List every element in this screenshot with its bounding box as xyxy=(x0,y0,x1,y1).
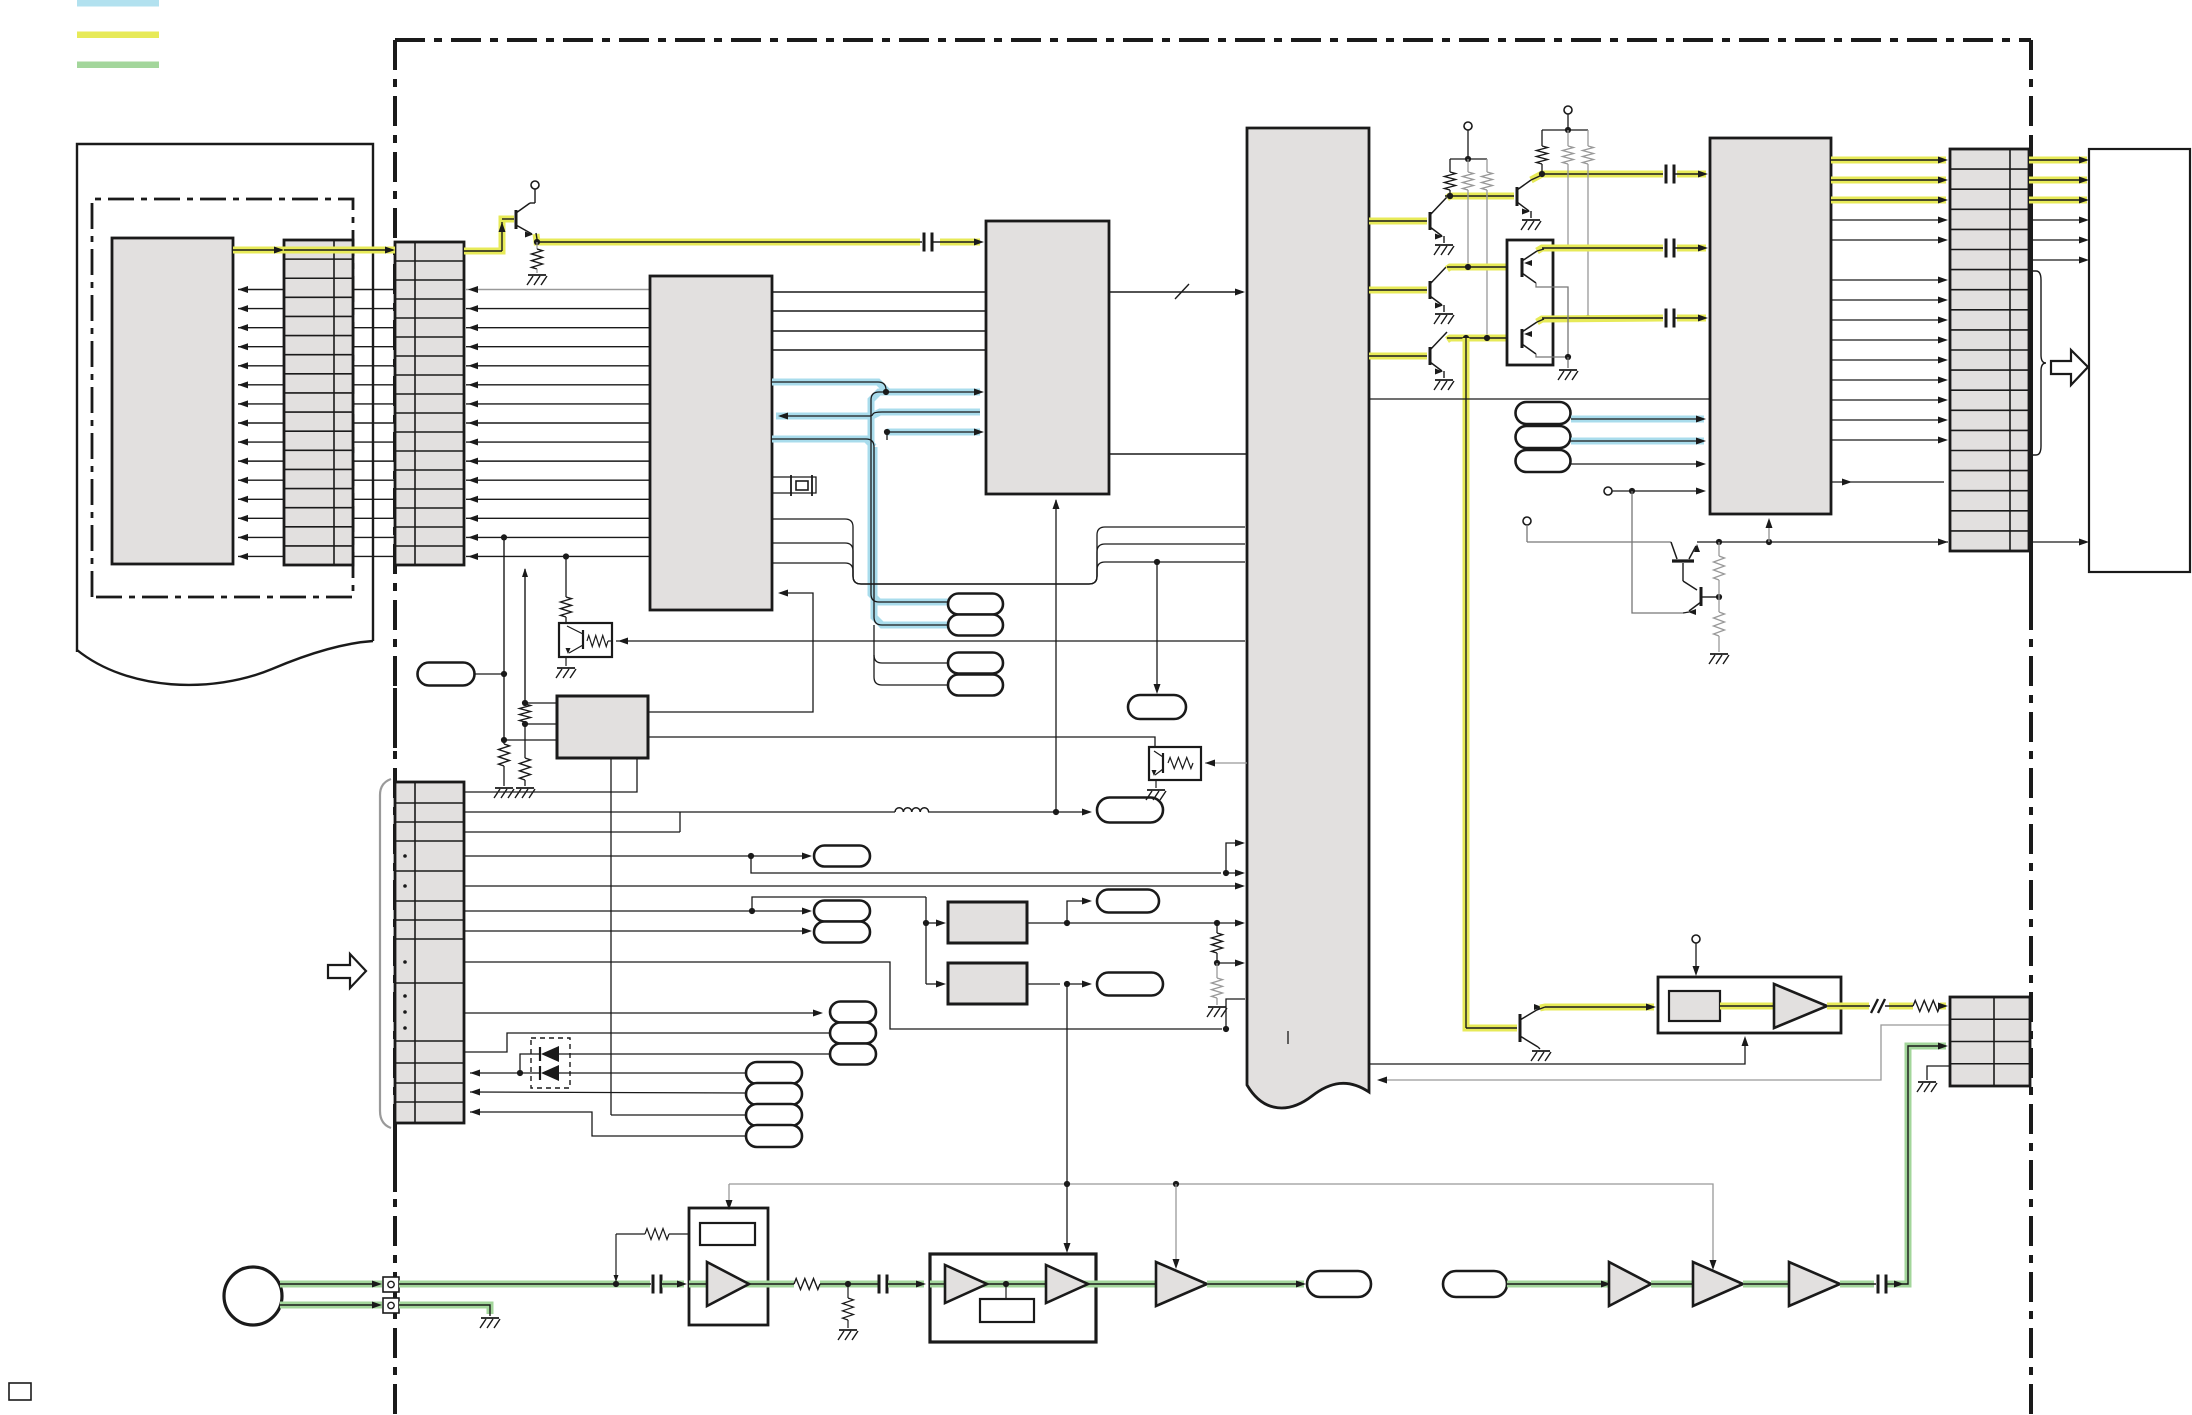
ground below PC2 xyxy=(1155,780,1157,788)
wire J5 bottom row to right block xyxy=(2029,541,2085,543)
IC U1 (LCD/display block) xyxy=(112,238,233,564)
test point oval TP-A5 xyxy=(830,1023,876,1044)
wire box B output down to audio mute line xyxy=(1066,984,1068,1184)
main board dash-dot border right xyxy=(2029,40,2033,1415)
wire cyan trunk node to IC U3 pin1 and test point oval xyxy=(871,392,980,602)
resistor R13 xyxy=(1541,130,1543,146)
gray control line to AMP1 and AMP3 tops xyxy=(729,1184,1713,1268)
wire J3 row10 stepped to oval TP-A5 xyxy=(464,1033,830,1052)
wire J3 row11 to oval TP-B1 via D2 xyxy=(470,1072,540,1074)
wire IC U10 to PC2 xyxy=(1205,762,1247,764)
green wire T6 to capacitor C7 up to J4 xyxy=(1840,1281,1874,1288)
wire D1 anode to oval TP-A6 xyxy=(559,1053,830,1055)
test point oval TP-A4 xyxy=(830,1002,876,1023)
IC U2 (key/system controller) xyxy=(650,276,772,610)
wire IC U5 bottom to oval TP-B3 line xyxy=(610,758,612,1115)
resistor R4 to ground xyxy=(499,744,510,766)
wire arrow up into J2 bottom, down to resistor R2 xyxy=(524,569,526,702)
green wire through AMP1 xyxy=(689,1281,768,1288)
yellow highlighted net - wire IC U1 to J1 to J2 to Q1 xyxy=(233,247,395,254)
bus wire IC U3 to IC U10 with width slash xyxy=(1109,291,1243,293)
test point oval TP-B4 xyxy=(948,675,1003,696)
wire AMP-B top arrow xyxy=(1066,1184,1068,1250)
transistor Q8 (pass) xyxy=(1671,542,1677,559)
connector J1 (flex to display) xyxy=(284,240,353,565)
wire vertical V1 inductor line to IC U3 bottom xyxy=(1055,500,1057,812)
wire long line to comparator boxes xyxy=(925,897,927,984)
amp triangle B2 xyxy=(1046,1265,1088,1303)
yellow wire Q6a collector row2 to capacitor C3 to IC U4 xyxy=(1537,248,1663,251)
legend yellow wire sample xyxy=(77,32,159,39)
test point oval TP-C1 xyxy=(948,594,1003,615)
resistor R15 xyxy=(1587,130,1589,146)
wire IC U10 to AMP2 bottom xyxy=(1369,1040,1745,1064)
ground below Q7 xyxy=(1532,1050,1550,1052)
cyan highlighted net - wires IC U2 to IC U3 (remote bus) xyxy=(772,382,886,392)
main board dash-dot border top xyxy=(395,38,2031,42)
amp triangle inside AMP1 xyxy=(707,1262,749,1306)
resistor R12 xyxy=(1486,159,1488,172)
wire J3 row13 stepped to oval TP-B4 xyxy=(470,1112,746,1136)
legend green wire sample xyxy=(77,62,159,69)
wire IC U4 to J5 with near arrow xyxy=(1831,481,1944,483)
resistor R5 above photocoupler PC1 xyxy=(565,557,567,598)
ground below R4 xyxy=(495,787,513,789)
wire J3 row12 to oval TP-B2 xyxy=(470,1092,746,1093)
gray wire J4 row2 to IC U10 xyxy=(1379,1025,1950,1080)
green wire pad2 to ground xyxy=(399,1305,490,1314)
transistor Q1 xyxy=(515,210,518,229)
test point oval TP-B3b xyxy=(746,1104,802,1126)
amp triangle B1 xyxy=(945,1265,987,1303)
feedback resistor R19 into AMP1 xyxy=(615,1234,617,1281)
gray branch to amp T3 xyxy=(1175,1184,1177,1266)
wire T3 node down to Q8 emitter xyxy=(1632,491,1683,613)
wires J1 rows to IC U1 (bus) xyxy=(238,286,284,560)
capacitor C4 xyxy=(1665,309,1668,328)
green wire TP-S2 to amp T4 xyxy=(1507,1281,1609,1288)
IC U5 (reset/regulator) xyxy=(557,696,648,758)
page corner box xyxy=(9,1383,31,1400)
wire J3 row5 to IC U10 xyxy=(464,885,1243,887)
capacitor C7 xyxy=(1877,1275,1880,1294)
big hollow arrow into J3 xyxy=(328,954,366,988)
wire J3 row1 to IC U5 bottom xyxy=(464,758,637,792)
yellow node wire Q4 collector into dual transistor Q6b base xyxy=(1447,338,1519,340)
audio block AMP-B xyxy=(930,1254,1096,1342)
transistor Q7 (audio mute) xyxy=(1519,1014,1522,1042)
attenuator block inside AMP1 xyxy=(700,1223,755,1245)
test point oval TP-A6 xyxy=(830,1044,876,1065)
amp triangle T4 xyxy=(1609,1262,1651,1306)
test point oval TP-B4b xyxy=(746,1125,802,1147)
cyan wires ovals to IC U4 xyxy=(1571,416,1704,423)
IC U10 (main microprocessor, torn bottom) xyxy=(1247,128,1369,1108)
transistor Q3 xyxy=(1429,281,1432,299)
terminal T3 to IC U4 xyxy=(1604,487,1612,495)
transistor Q5 with ground xyxy=(1516,187,1519,206)
wire IC U5 to photocoupler PC2 xyxy=(648,737,1155,746)
yellow node wire Q3 collector into dual transistor Q6a base xyxy=(1447,267,1519,269)
pin marker dots in J3 xyxy=(403,854,407,858)
feedthrough pad P1 xyxy=(383,1277,399,1292)
wires IC U4 to J5 (signal bus) xyxy=(1831,217,1948,444)
yellow wire IC U10 to Q2 base xyxy=(1369,218,1427,225)
big hollow arrow to right block xyxy=(2051,350,2088,385)
transistor Q2 xyxy=(1429,212,1432,230)
wires J1 to J2 (board boundary bus) xyxy=(353,290,395,557)
left assembly outer box (torn-edge) xyxy=(77,144,373,652)
resistor R11 xyxy=(1467,159,1469,172)
capacitor C5 xyxy=(652,1275,655,1294)
test point oval TP-A1 xyxy=(814,846,870,867)
wire box B output to oval TP-K2 xyxy=(1027,983,1060,985)
IC U3 (servo/driver) xyxy=(986,221,1109,494)
resistor R18 xyxy=(1913,1001,1940,1012)
wire J3 row4 to oval TP-A1 and IC U10 xyxy=(464,855,751,857)
amp triangle T5 xyxy=(1693,1262,1743,1306)
ground at mic return xyxy=(481,1317,499,1319)
wire J3 row6 to oval TP-A2 with stub xyxy=(464,910,752,912)
capacitor C6 xyxy=(878,1275,881,1294)
left assembly inner dash-dot box xyxy=(92,199,353,597)
resistor R21 to ground xyxy=(847,1284,849,1298)
terminal T4 supply xyxy=(1523,517,1531,525)
ground below R3 xyxy=(516,787,534,789)
amp triangle inside AMP2 xyxy=(1774,984,1827,1028)
test point oval TP-B2 xyxy=(746,1083,802,1105)
wire to oval TP-B3 xyxy=(611,1114,746,1116)
yellow wire Q1 emitter to capacitor C1 to IC U3 xyxy=(536,234,920,242)
yellow wire through AMP2 xyxy=(1720,1003,1774,1010)
wire IC U5 pin3 to tap xyxy=(504,739,556,741)
wire oval3 to IC U4 xyxy=(1571,463,1702,465)
resistor R16 xyxy=(1718,542,1720,556)
IC U10 internal tick xyxy=(1287,1031,1289,1044)
main board dash-dot border left xyxy=(393,40,397,1415)
transistor Q6b xyxy=(1521,329,1524,348)
test point oval TP-B1 xyxy=(746,1062,802,1084)
wire T4 to Q8/Q9 and J5 xyxy=(1527,541,1671,543)
green wire T3 to oval TP-S1 xyxy=(1207,1281,1304,1288)
test point oval TP-L xyxy=(1097,798,1163,823)
ferrite bead FB1 xyxy=(1871,999,1878,1013)
green wire MIC1 to pad1 xyxy=(280,1281,382,1288)
amp triangle T3 xyxy=(1156,1262,1207,1306)
cyan test point ovals at IC U4 xyxy=(1516,402,1571,424)
wire IC U5 to IC U2 (feedback) xyxy=(648,593,813,712)
transistor Q9 xyxy=(1683,581,1697,590)
wire box A output to oval TP-K1 and IC U10 xyxy=(1027,922,1215,924)
photocoupler PC2 xyxy=(1149,747,1201,780)
comparator box A xyxy=(948,902,1027,943)
feedthrough pad P2 xyxy=(383,1298,399,1313)
ground below Q6 xyxy=(1559,369,1577,371)
yellow wire IC U10 to Q3 base xyxy=(1369,287,1427,294)
green wire T4 to T5 xyxy=(1651,1281,1693,1288)
green wire through AMP-B xyxy=(930,1281,1096,1288)
photocoupler PC1 xyxy=(559,623,612,657)
green wire AMP-B to amp T3 xyxy=(1096,1281,1156,1288)
ground below PC1 xyxy=(565,657,567,666)
junction on bus wire 3 xyxy=(1154,559,1160,565)
yellow wires IC U4 to J5 (video outs) xyxy=(1831,157,1946,164)
wire trunk tail to test point ovals 3,4 xyxy=(874,625,948,663)
yellow wire Q5 collector row to capacitor C2 to IC U4 xyxy=(1531,174,1663,180)
test point oval TP-K2 xyxy=(1097,973,1163,996)
wire cyan D trunk to IC U3 pin3 xyxy=(887,431,980,433)
yellow wire IC U10 to Q4 base xyxy=(1369,353,1427,360)
yellow wires J5 to right block xyxy=(2029,157,2087,164)
connector J4 (microphone jack) xyxy=(1950,997,2030,1086)
wires J2 rows to IC U2 (bus) xyxy=(466,286,650,560)
resistor R10 xyxy=(1449,159,1451,172)
test point oval TP1 xyxy=(418,663,475,686)
wire Q6 emitters to ground xyxy=(1536,283,1568,357)
capacitor C1 xyxy=(923,233,926,252)
capacitor C2 xyxy=(1665,165,1668,184)
comparator box B xyxy=(948,963,1027,1004)
resistor R14 xyxy=(1567,130,1569,146)
wire D1 cathode to D2 line xyxy=(520,1054,540,1073)
wire J3 row7 to oval TP-A3 xyxy=(464,930,806,932)
wires IC U2 to IC U3 (4-bit bus) xyxy=(772,292,986,350)
connector J2 (board edge) xyxy=(395,242,464,565)
green wire MIC1 to pad2 xyxy=(280,1302,382,1309)
bracket right of J5 xyxy=(2029,271,2046,455)
terminal T2 with pullup resistors xyxy=(1564,106,1572,114)
arrow into J5 bottom row xyxy=(1938,539,1948,546)
resistor R6 divider xyxy=(1212,933,1223,953)
yellow long vertical wire to Q7 base xyxy=(1466,338,1517,1028)
wire IC U10 to IC U4 xyxy=(1369,398,1710,400)
terminal above Q1 xyxy=(531,181,539,189)
audio amplifier box AMP2 xyxy=(1658,977,1841,1033)
diode D1 xyxy=(539,1047,541,1061)
test point oval TP-M2 xyxy=(1128,695,1186,719)
test point oval TP-B3 xyxy=(948,653,1003,674)
wire cyan A IC U2 to node xyxy=(772,382,886,392)
wire J3 row8 to IC U10 (stepped) xyxy=(464,962,1222,1029)
resistor R3 to ground xyxy=(524,724,526,758)
test point oval TP-A3 xyxy=(814,922,870,943)
test point oval TP-S2 xyxy=(1443,1271,1507,1297)
amp triangle T6 xyxy=(1789,1262,1840,1306)
yellow node wire Q2 collector to Q5 base xyxy=(1447,196,1514,198)
resistor R7 divider lower xyxy=(1212,978,1223,998)
wire J3 row3 joining inductor line xyxy=(464,831,680,833)
green wire pad1 to capacitor C5 to AMP1 xyxy=(399,1281,650,1288)
ground below R21 xyxy=(839,1329,857,1331)
wire J3 row9 to oval TP-A4 xyxy=(464,1012,817,1014)
yellow wire Q6b collector row3 to capacitor C4 to IC U4 xyxy=(1537,318,1663,322)
connector J3 (operation/switch board) xyxy=(395,782,464,1123)
terminal T1 with pullup resistors xyxy=(1464,122,1472,130)
test point oval TP-S1 xyxy=(1307,1271,1371,1297)
diode D2 xyxy=(539,1066,541,1080)
yellow wire Q7 to audio amp box xyxy=(1540,1007,1654,1008)
resistor R17 to ground xyxy=(1718,597,1720,612)
main border right solid segment xyxy=(2029,143,2033,601)
dual digital transistor Q6 box xyxy=(1507,240,1553,365)
branch to IC U10 upper pin xyxy=(1226,843,1243,873)
test point oval TP-A2 xyxy=(814,901,870,922)
bracket left of connector J3 xyxy=(380,779,391,1128)
resistor R2 between IC U5 pins xyxy=(522,700,528,706)
ALC block under AMP-B xyxy=(1005,1284,1007,1299)
wires J5 to right block xyxy=(2029,219,2085,221)
ground below R17 xyxy=(1710,653,1728,655)
wire TP1 to J2 tap junction xyxy=(474,673,504,675)
green wire T5 to T6 xyxy=(1743,1281,1789,1288)
connector J5 (to jack board) xyxy=(1950,149,2029,551)
arrow up into IC U4 bottom xyxy=(1768,522,1770,542)
right block (jack board) xyxy=(2089,149,2190,572)
resistor R1 at Q1 emitter xyxy=(536,242,538,249)
microphone amplifier AMP1 xyxy=(689,1208,768,1325)
wire tap from J2 row16 down through TP1 to resistor R4 xyxy=(503,537,505,740)
transistor Q4 xyxy=(1429,347,1432,365)
bus wires IC U2 to IC U10 (3-wire channel) xyxy=(772,519,1245,584)
wire junction to test point oval TP-M2 xyxy=(1156,562,1158,690)
microphone MIC1 xyxy=(224,1267,282,1325)
transistor Q6a xyxy=(1521,258,1524,277)
gain block inside AMP2 xyxy=(1669,991,1720,1021)
terminal T5 above AMP2 xyxy=(1692,935,1700,943)
ground stub at J4 xyxy=(1927,1066,1950,1080)
ground below R1 xyxy=(528,274,546,276)
test point oval TP-C2 xyxy=(948,615,1003,636)
wire cyan C IC U2 to trunk to test point oval 2 xyxy=(772,439,948,625)
green wire AMP1 to resistor R20 to box AMP-B xyxy=(768,1281,794,1288)
wire PC1 input from IC U10 xyxy=(616,640,1245,642)
wire cyan B IC U3 to IC U2 (return) xyxy=(780,412,980,416)
main border left solid segment near connector J3 xyxy=(393,688,397,748)
test point oval TP-K1 xyxy=(1097,890,1159,913)
yellow wire AMP2 output to J4 row1 xyxy=(1827,1003,1869,1010)
inductor L1 xyxy=(895,808,929,812)
wire IC U5 pin1 to R2 top xyxy=(525,702,556,704)
IC U4 (camera process) xyxy=(1710,138,1831,514)
diode pair dashed box xyxy=(531,1038,570,1088)
wire IC U5 pin2 to R2 bottom xyxy=(525,723,556,725)
wire J3 row2 through inductor L1 to test point xyxy=(464,811,895,813)
ground below R7 xyxy=(1208,1006,1226,1008)
crystal X1 at IC U2 xyxy=(772,477,816,493)
wire IC U3 to IC U10 pin2 xyxy=(1109,453,1247,455)
capacitor C3 xyxy=(1665,239,1668,258)
legend cyan wire sample xyxy=(77,0,159,7)
resistor R20 xyxy=(794,1279,820,1290)
